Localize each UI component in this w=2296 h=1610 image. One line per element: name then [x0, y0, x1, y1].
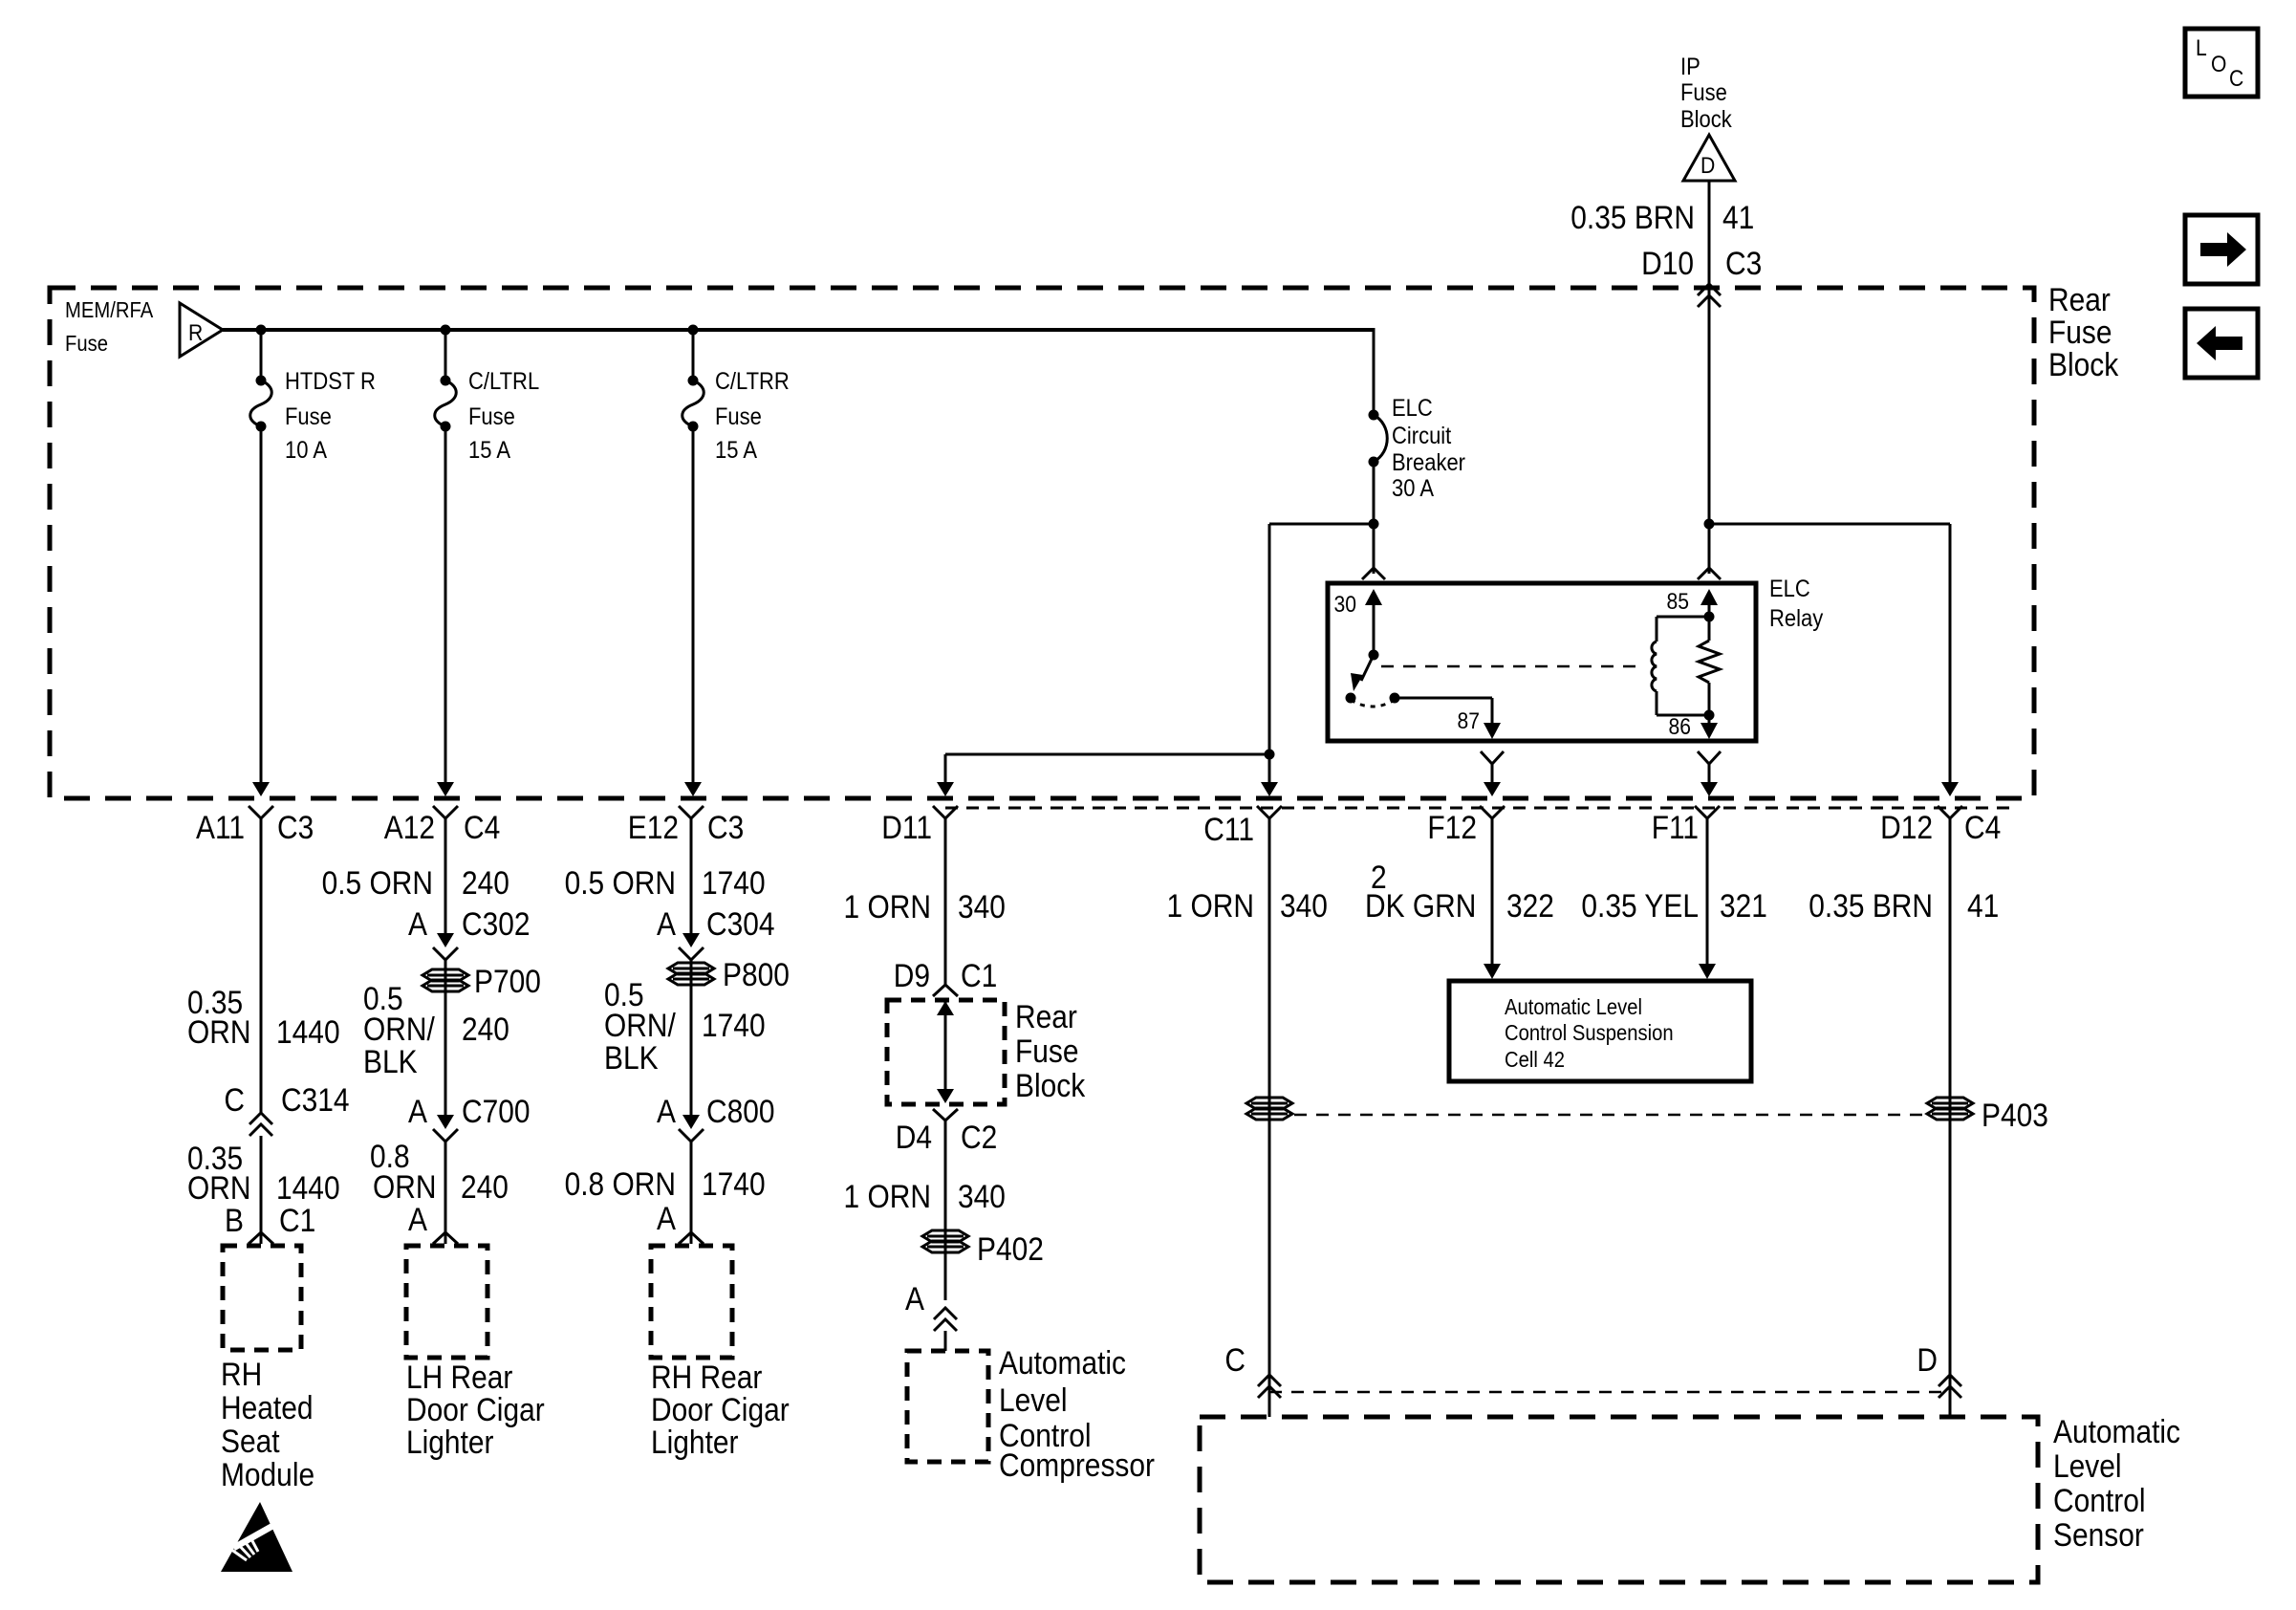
label Rear Fuse Block inline [1015, 999, 1086, 1104]
wire D11 to P402 [944, 1120, 947, 1300]
svg-text:240: 240 [462, 1012, 509, 1048]
svg-text:Block: Block [1015, 1068, 1086, 1104]
svg-text:0.5 ORN: 0.5 ORN [322, 865, 433, 902]
connector C11 chevron [1257, 806, 1282, 818]
svg-text:F11: F11 [1652, 810, 1699, 846]
svg-text:D4: D4 [896, 1120, 932, 1156]
ESD symbol [221, 1502, 292, 1572]
label 0.5 ORN 1740 [565, 865, 766, 902]
connector A11-C3 chevron [249, 806, 273, 818]
svg-text:IP: IP [1680, 54, 1700, 80]
svg-text:D: D [1917, 1342, 1938, 1379]
label A C700 [408, 1094, 531, 1130]
label 0.5 ORN/ BLK 240 [363, 981, 509, 1080]
label MEM/RFA Fuse [65, 297, 154, 356]
svg-text:A11: A11 [196, 810, 245, 846]
relay coil resistor [1699, 617, 1720, 715]
svg-text:86: 86 [1669, 714, 1692, 740]
wire C11 down [1268, 818, 1271, 1400]
svg-text:D: D [1700, 153, 1715, 179]
svg-text:Cell 42: Cell 42 [1505, 1047, 1565, 1072]
connector chevron at LH lighter [433, 1232, 458, 1244]
svg-text:Heated: Heated [221, 1390, 314, 1426]
pin 86 [1669, 710, 1719, 741]
pin 87 [1458, 698, 1502, 739]
svg-text:Automatic Level: Automatic Level [1505, 994, 1642, 1019]
label E12 C3 [628, 810, 745, 846]
svg-text:Lighter: Lighter [406, 1425, 494, 1461]
label LH Rear Door Cigar Lighter [406, 1360, 545, 1461]
svg-text:Door Cigar: Door Cigar [651, 1392, 790, 1428]
label A C302 [408, 906, 531, 943]
wire main bus [223, 328, 1374, 332]
svg-text:Fuse: Fuse [285, 403, 332, 430]
svg-text:Sensor: Sensor [2053, 1517, 2144, 1554]
svg-text:1740: 1740 [702, 1008, 766, 1044]
wire A11 lower [260, 1136, 263, 1244]
svg-text:1440: 1440 [276, 1014, 340, 1051]
svg-text:C: C [224, 1082, 245, 1119]
connector chevrons sensor D [1939, 1375, 1961, 1398]
connector F12 chevron [1480, 806, 1505, 818]
wire bus corner down to breaker [1373, 328, 1375, 415]
connector A12-C4 chevron [433, 806, 458, 818]
right arrow box [2185, 215, 2258, 284]
svg-text:D10: D10 [1641, 246, 1694, 282]
svg-text:MEM/RFA: MEM/RFA [65, 297, 154, 322]
svg-text:1740: 1740 [702, 1166, 766, 1203]
svg-text:BLK: BLK [363, 1044, 418, 1080]
label D12 C4 [1880, 810, 2001, 846]
connector chevron below pin87 [1481, 751, 1504, 764]
fuse C/LTRL 15A [435, 330, 540, 464]
label A C800 [657, 1094, 775, 1130]
connector chevron below pin86 [1698, 751, 1721, 764]
label 0.35 BRN 41 [1570, 200, 1754, 236]
wire A11 down [260, 818, 263, 1113]
svg-text:321: 321 [1720, 888, 1767, 925]
label A C304 [657, 906, 775, 943]
svg-text:C4: C4 [464, 810, 500, 846]
svg-text:1 ORN: 1 ORN [844, 1179, 932, 1215]
wire C11 drop [1261, 754, 1278, 796]
svg-text:85: 85 [1667, 589, 1690, 615]
svg-text:0.35 BRN: 0.35 BRN [1809, 888, 1933, 925]
wire A12 to P700 [444, 960, 447, 1047]
relay U ELC box [1328, 583, 1756, 741]
svg-text:B: B [225, 1203, 244, 1239]
label 0.8 ORN 1740 [565, 1166, 766, 1203]
wire junction right [1709, 523, 1950, 526]
dashed link to P403 [1294, 1114, 1925, 1117]
label D4 C2 [896, 1120, 998, 1156]
svg-text:D11: D11 [881, 810, 932, 846]
grommet P800 [668, 957, 790, 993]
svg-text:ORN: ORN [373, 1169, 437, 1206]
grommet P403 [1927, 1098, 2048, 1134]
wire pin87 to border [1484, 764, 1501, 796]
svg-text:Relay: Relay [1769, 605, 1824, 632]
node bus-cltrl [441, 325, 451, 336]
svg-text:C1: C1 [961, 958, 997, 994]
dashed link between C and D [1269, 1391, 1950, 1394]
connector E12-C3 chevron [679, 806, 704, 818]
label A11 C3 [196, 810, 314, 846]
svg-text:240: 240 [461, 1169, 509, 1206]
node breaker junction [1369, 519, 1379, 530]
svg-text:340: 340 [958, 889, 1006, 925]
svg-text:RH Rear: RH Rear [651, 1360, 762, 1396]
svg-text:A: A [905, 1281, 924, 1317]
pin 30 [1334, 589, 1383, 655]
svg-text:Fuse: Fuse [2048, 315, 2112, 351]
wire breaker to junction [1373, 462, 1375, 574]
wire switch to pin87 [1395, 697, 1492, 700]
svg-text:Door Cigar: Door Cigar [406, 1392, 545, 1428]
svg-text:P700: P700 [474, 964, 541, 1000]
svg-text:C700: C700 [462, 1094, 531, 1130]
label 0.35 YEL 321 [1581, 888, 1767, 925]
node ip junction [1704, 519, 1715, 530]
svg-text:ORN: ORN [187, 1170, 251, 1207]
connector row thin dashed line [945, 807, 2012, 810]
svg-text:41: 41 [1722, 200, 1754, 236]
svg-text:C800: C800 [706, 1094, 775, 1130]
svg-text:L: L [2196, 35, 2207, 61]
box Automatic Level Control Suspension Cell 42 [1449, 981, 1751, 1081]
svg-text:A: A [408, 1094, 427, 1130]
connector chevron D9 [933, 985, 958, 996]
svg-text:Automatic: Automatic [999, 1345, 1126, 1382]
svg-text:A: A [657, 1094, 676, 1130]
svg-text:A: A [657, 1201, 676, 1237]
svg-text:R: R [188, 320, 203, 346]
svg-text:C3: C3 [277, 810, 314, 846]
svg-text:P402: P402 [977, 1231, 1044, 1268]
connector chevron D4 [933, 1109, 958, 1120]
svg-text:Compressor: Compressor [999, 1447, 1155, 1484]
svg-text:Seat: Seat [221, 1424, 280, 1460]
grommet at C11 [1246, 1098, 1292, 1120]
connector C700 arrow and chevron [433, 1047, 458, 1142]
wire D12 down [1949, 818, 1952, 1400]
svg-text:C/LTRR: C/LTRR [715, 368, 790, 395]
svg-text:ORN/: ORN/ [363, 1012, 435, 1048]
label 0.5 ORN/ BLK 1740 [604, 977, 766, 1077]
svg-text:0.35 BRN: 0.35 BRN [1570, 200, 1695, 236]
relay coil [1652, 617, 1709, 715]
svg-text:Breaker: Breaker [1392, 449, 1465, 476]
svg-text:Fuse: Fuse [1015, 1033, 1079, 1070]
svg-text:15 A: 15 A [715, 437, 757, 464]
connector C314 chevrons [249, 1113, 272, 1136]
label A12 C4 [384, 810, 501, 846]
wire pin86 to border [1700, 764, 1718, 796]
sensor dashed box [1200, 1417, 2038, 1582]
svg-text:0.35 YEL: 0.35 YEL [1581, 888, 1699, 925]
svg-text:Automatic: Automatic [2053, 1414, 2180, 1450]
wire D12 drop [1941, 524, 1959, 796]
svg-text:30: 30 [1334, 592, 1357, 618]
connector D12-C4 chevron [1938, 806, 1962, 818]
svg-text:Lighter: Lighter [651, 1425, 739, 1461]
rear fuse block dashed box [50, 288, 2034, 798]
connector D11 chevron [933, 806, 958, 818]
connector C304 arrow and chevron [679, 933, 704, 960]
relay dashed link [1381, 665, 1643, 668]
svg-text:A: A [408, 906, 427, 943]
svg-text:C314: C314 [281, 1082, 350, 1119]
connector chevron at seat module [249, 1232, 273, 1244]
svg-text:Circuit: Circuit [1392, 423, 1451, 449]
svg-text:O: O [2211, 52, 2226, 77]
wire junction left [1269, 523, 1374, 526]
label B C1 [225, 1203, 315, 1239]
node bus-cltrr [688, 325, 699, 336]
svg-text:Block: Block [1680, 106, 1732, 133]
svg-text:87: 87 [1458, 708, 1481, 734]
grommet P700 [422, 964, 541, 1000]
svg-text:C304: C304 [706, 906, 775, 943]
connector chevron at RH lighter [679, 1232, 704, 1244]
svg-text:340: 340 [958, 1179, 1006, 1215]
wire htdst down [252, 426, 270, 796]
left arrow box [2185, 309, 2258, 378]
wire into sensor right [1949, 1398, 1952, 1417]
svg-text:DK GRN: DK GRN [1365, 888, 1476, 925]
node left branch split [1265, 750, 1275, 760]
label D10 C3 [1641, 246, 1762, 282]
svg-text:A: A [657, 906, 676, 943]
relay switch [1346, 650, 1400, 707]
inline rear fuse block dashed box [887, 1000, 1005, 1104]
component box RH Rear Door Cigar Lighter [651, 1246, 732, 1358]
svg-text:1 ORN: 1 ORN [844, 889, 932, 925]
svg-text:1440: 1440 [276, 1170, 340, 1207]
wire left branch down [1268, 524, 1271, 754]
label RH Heated Seat Module [221, 1357, 314, 1493]
fuse symbol triangle D [1683, 135, 1735, 181]
svg-text:240: 240 [462, 865, 509, 902]
label Automatic Level Control Compressor [999, 1345, 1155, 1484]
svg-text:Fuse: Fuse [65, 331, 108, 356]
svg-text:C3: C3 [707, 810, 744, 846]
fuse HTDST R 10A [250, 330, 376, 464]
svg-text:C302: C302 [462, 906, 531, 943]
wire F12 down [1484, 818, 1501, 979]
svg-text:C: C [2229, 66, 2243, 92]
svg-text:P403: P403 [1982, 1098, 2048, 1134]
label D9 C1 [894, 958, 998, 994]
label C C314 [224, 1082, 349, 1119]
wire F11 down [1699, 818, 1716, 979]
svg-text:P800: P800 [723, 957, 790, 993]
svg-text:Level: Level [999, 1382, 1068, 1419]
svg-text:1 ORN: 1 ORN [1167, 888, 1255, 925]
svg-text:C2: C2 [961, 1120, 997, 1156]
svg-text:C11: C11 [1203, 812, 1254, 848]
svg-text:Control Suspension: Control Suspension [1505, 1020, 1674, 1045]
svg-text:BLK: BLK [604, 1040, 659, 1077]
wire E12 to P800 [690, 960, 693, 1047]
svg-text:Module: Module [221, 1457, 314, 1493]
svg-text:322: 322 [1506, 888, 1554, 925]
svg-text:C1: C1 [279, 1203, 315, 1239]
label 0.35 ORN 1440 lower [187, 1141, 340, 1207]
label IP Fuse Block [1680, 54, 1732, 133]
connector chevrons at box top [1698, 284, 1721, 307]
svg-text:Rear: Rear [1015, 999, 1077, 1035]
label 0.8 ORN 240 [370, 1139, 509, 1206]
svg-text:C4: C4 [1964, 810, 2001, 846]
wire cltrl down [437, 426, 454, 796]
svg-text:C: C [1224, 1342, 1245, 1379]
label 2 DK GRN 322 [1365, 859, 1554, 925]
wire into compressor [944, 1331, 947, 1351]
connector C302 arrow and chevron [433, 933, 458, 960]
label 1 ORN 340 [1167, 888, 1328, 925]
fuse C/LTRR 15A [682, 330, 790, 464]
connector F11 chevron [1695, 806, 1720, 818]
label Cell 42 box [1505, 994, 1674, 1072]
svg-text:0.8 ORN: 0.8 ORN [565, 1166, 676, 1203]
wire horizontal to D11 [945, 753, 1269, 756]
svg-text:LH Rear: LH Rear [406, 1360, 512, 1396]
svg-text:C3: C3 [1725, 246, 1762, 282]
component box RH Heated Seat Module [223, 1246, 301, 1350]
connector C800 arrow and chevron [679, 1047, 704, 1142]
label 0.35 BRN 41 [1809, 888, 1999, 925]
svg-text:1740: 1740 [702, 865, 766, 902]
LOC box [2185, 29, 2258, 97]
label 0.35 ORN 1440 [187, 985, 340, 1051]
svg-text:Fuse: Fuse [1680, 79, 1727, 106]
connector chevron above relay pin30 [1362, 568, 1385, 579]
svg-text:ELC: ELC [1769, 576, 1810, 602]
svg-text:E12: E12 [628, 810, 679, 846]
connector chevrons sensor C [1258, 1375, 1281, 1398]
component box LH Rear Door Cigar Lighter [406, 1246, 487, 1358]
wire into sensor left [1268, 1398, 1271, 1417]
label ELC Relay [1769, 576, 1824, 632]
node bus-htdst [256, 325, 267, 336]
label RH Rear Door Cigar Lighter [651, 1360, 790, 1461]
svg-text:Fuse: Fuse [715, 403, 762, 430]
wire D11 drop [937, 754, 954, 796]
svg-text:RH: RH [221, 1357, 262, 1393]
svg-text:0.5 ORN: 0.5 ORN [565, 865, 676, 902]
wire E12 lower [690, 1142, 693, 1244]
pin 85 [1667, 589, 1719, 622]
svg-text:ORN: ORN [187, 1014, 251, 1051]
connector chevron above relay pin85 [1698, 568, 1721, 579]
wire A12 lower [444, 1142, 447, 1244]
label Rear Fuse Block [2048, 282, 2119, 383]
svg-text:340: 340 [1280, 888, 1328, 925]
circuit breaker ELC 30A [1369, 395, 1466, 502]
svg-text:Rear: Rear [2048, 282, 2111, 318]
svg-text:A: A [408, 1202, 427, 1238]
svg-text:A12: A12 [384, 810, 435, 846]
svg-text:D9: D9 [894, 958, 930, 994]
svg-text:C/LTRL: C/LTRL [468, 368, 539, 395]
label Automatic Level Control Sensor [2053, 1414, 2180, 1554]
svg-text:10 A: 10 A [285, 437, 327, 464]
svg-text:Fuse: Fuse [468, 403, 515, 430]
svg-text:Level: Level [2053, 1448, 2122, 1485]
svg-text:15 A: 15 A [468, 437, 510, 464]
svg-text:ORN/: ORN/ [604, 1008, 676, 1044]
wire D11 down [944, 818, 947, 985]
grommet P402 [922, 1230, 1044, 1268]
fuse symbol triangle R [180, 303, 223, 357]
svg-text:Block: Block [2048, 347, 2119, 383]
label 1 ORN 340 lower [844, 1179, 1006, 1215]
wire A12 down [444, 818, 447, 943]
svg-text:HTDST R: HTDST R [285, 368, 376, 395]
label 1 ORN 340 [844, 889, 1006, 925]
svg-text:F12: F12 [1427, 810, 1477, 846]
wire IP fuse block down [1708, 181, 1711, 574]
svg-text:ELC: ELC [1392, 395, 1433, 422]
svg-text:41: 41 [1967, 888, 1999, 925]
svg-text:D12: D12 [1880, 810, 1933, 846]
component box Automatic Level Control Compressor [907, 1351, 988, 1462]
svg-text:Control: Control [2053, 1483, 2146, 1519]
svg-text:30 A: 30 A [1392, 475, 1434, 502]
connector chevrons compressor [934, 1308, 957, 1331]
wire cltrr down [684, 426, 702, 796]
wire E12 down [690, 818, 693, 943]
label 0.5 ORN 240 [322, 865, 509, 902]
